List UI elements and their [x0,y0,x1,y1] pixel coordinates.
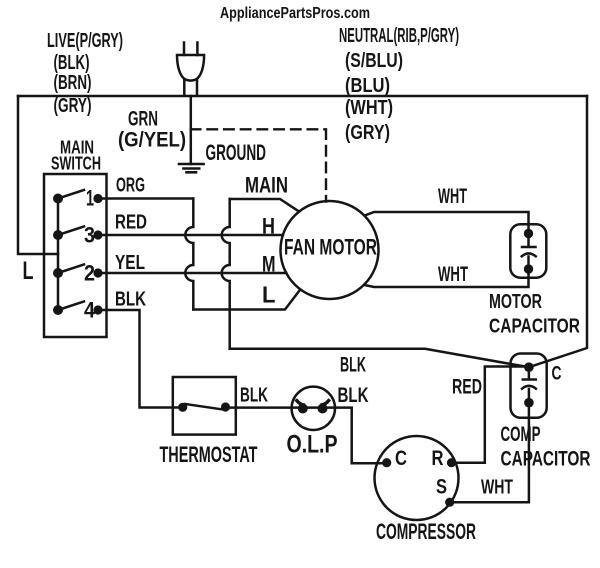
wire OLP to compressor C [352,408,387,463]
svg-text:RED: RED [115,212,147,234]
wire thermostat to OLP [225,406,352,409]
wire top bus [18,95,587,98]
svg-text:ORG: ORG [116,175,145,197]
node terminal 1 [93,194,102,203]
svg-text:(BRN): (BRN) [54,72,92,94]
node terminal 2 [93,268,102,277]
svg-text:R: R [432,447,444,470]
wire BLK fan main to comp capacitor [230,349,529,367]
node comp cap bottom [524,398,534,408]
svg-text:S: S [436,476,447,499]
wire switch common bus [57,199,60,311]
svg-text:(GRY): (GRY) [345,122,390,144]
wire WHT fan bottom to motor capacitor [365,269,529,287]
svg-text:L: L [23,257,34,285]
fan motor M1 [281,201,379,299]
compressor M2 [375,436,459,520]
svg-text:SWITCH: SWITCH [51,154,101,174]
node motor cap bottom [524,264,533,273]
wire YEL terminal 2 to M tap [98,272,286,275]
svg-text:C: C [395,447,407,470]
svg-text:COMPRESSOR: COMPRESSOR [376,519,476,544]
svg-text:BLK: BLK [115,289,146,311]
thermostat blade [185,404,223,410]
svg-text:(WHT): (WHT) [345,97,393,119]
node terminal 4 [93,305,102,314]
node switch common 3 [53,230,63,240]
node terminal 3 [93,230,102,239]
svg-text:BLK: BLK [340,354,366,377]
node switch common 1 [53,194,63,204]
wire right border (neutral) [529,96,587,367]
svg-text:C: C [552,364,562,385]
svg-text:WHT: WHT [438,185,467,208]
node thermostat left [178,403,187,412]
svg-text:FAN MOTOR: FAN MOTOR [284,235,377,260]
svg-text:(BLK): (BLK) [54,52,90,74]
node switch common 4 [53,305,63,315]
svg-text:YEL: YEL [115,252,145,274]
node motor cap top [524,229,533,238]
svg-text:BLK: BLK [240,384,268,407]
switch blade 4 [58,302,84,311]
switch blade 2 [58,265,84,274]
svg-text:2: 2 [84,261,95,286]
switch blade 3 [58,227,84,236]
svg-text:(BLU): (BLU) [345,75,390,97]
svg-text:GRN: GRN [128,108,158,131]
svg-text:RED: RED [452,376,482,399]
switch blade 1 [58,190,84,199]
wire left border [18,96,58,254]
svg-text:CAPACITOR: CAPACITOR [489,316,580,338]
node OLP right [318,404,328,414]
node compressor C [382,458,391,467]
wire ground dashed to motor frame [191,129,326,201]
node OLP left [298,404,308,414]
svg-text:WHT: WHT [481,477,513,499]
svg-text:(S/BLU): (S/BLU) [345,50,403,72]
comp capacitor C2 [511,354,547,418]
svg-text:AppliancePartsPros.com: AppliancePartsPros.com [220,5,370,22]
svg-text:1: 1 [86,186,94,211]
svg-text:NEUTRAL(RIB,P/GRY): NEUTRAL(RIB,P/GRY) [339,25,459,47]
wire RED comp capacitor to compressor R [452,367,529,463]
svg-text:WHT: WHT [438,263,468,286]
wire ORG vertical with hops [185,199,193,310]
svg-text:LIVE(P/GRY): LIVE(P/GRY) [47,30,123,52]
wire fan MAIN vertical with hops [222,199,230,349]
wire ORG to fan L tap [193,291,299,310]
wire WHT compressor S to comp capacitor [450,403,529,503]
svg-text:M: M [262,252,276,277]
svg-text:L: L [262,282,276,308]
svg-text:MAIN: MAIN [245,173,288,198]
svg-text:3: 3 [84,223,95,248]
motor capacitor C1 [510,224,546,277]
svg-text:CAPACITOR: CAPACITOR [501,448,591,471]
node compressor S [445,498,454,507]
wire RED terminal 3 to H tap [98,234,283,237]
wire WHT fan top to motor capacitor [365,212,528,234]
svg-text:O.L.P: O.L.P [287,431,338,459]
plug P1 [177,43,204,96]
thermostat box [173,377,236,435]
svg-text:COMP: COMP [501,423,541,446]
svg-text:MOTOR: MOTOR [489,291,542,313]
svg-text:(G/YEL): (G/YEL) [118,129,186,152]
wire ORG terminal 1 [98,197,193,200]
svg-text:GROUND: GROUND [206,140,267,165]
svg-text:(GRY): (GRY) [54,95,92,117]
ground [179,164,204,172]
wire BLK terminal 4 to thermostat [98,310,183,408]
node thermostat right [221,402,230,411]
svg-text:4: 4 [84,298,96,323]
svg-text:H: H [262,214,275,239]
node compressor R [447,458,456,467]
overload protector OLP [292,387,335,430]
node switch common 2 [53,268,63,278]
main switch S1 box [44,174,107,337]
OLP contact hooks [297,401,303,405]
wire ground lead [190,96,193,164]
node comp cap C [524,362,534,372]
svg-text:THERMOSTAT: THERMOSTAT [160,442,258,467]
wire fan MAIN top [230,199,299,212]
svg-text:BLK: BLK [338,384,369,407]
